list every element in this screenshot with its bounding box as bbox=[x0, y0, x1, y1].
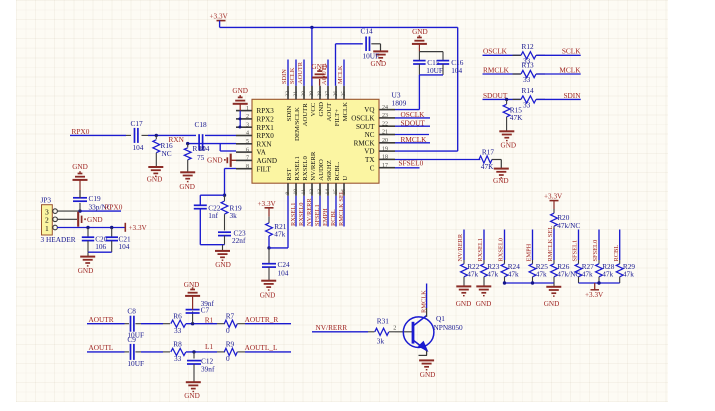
svg-text:FILT+: FILT+ bbox=[334, 109, 341, 127]
junction R16 bbox=[155, 134, 158, 137]
wire cap bottom rail bbox=[419, 74, 443, 76]
svg-text:R14: R14 bbox=[522, 86, 535, 95]
junction pin3 tie bbox=[238, 126, 241, 129]
svg-text:GND: GND bbox=[72, 163, 88, 171]
wire net RMCLK SEL pin16 bbox=[343, 196, 345, 227]
svg-text:29: 29 bbox=[309, 91, 315, 97]
transistor Q1 bbox=[403, 317, 434, 348]
ground C19 bbox=[73, 179, 88, 181]
ground C14 bbox=[373, 50, 388, 52]
ground R22 bbox=[463, 283, 465, 286]
svg-text:AOUTR_R: AOUTR_R bbox=[245, 315, 279, 324]
svg-text:106: 106 bbox=[95, 242, 106, 251]
wire RXN bbox=[188, 143, 236, 145]
svg-text:6: 6 bbox=[246, 147, 249, 153]
svg-text:10UF: 10UF bbox=[426, 66, 443, 75]
svg-text:GND: GND bbox=[260, 291, 276, 299]
ground JP3 pin2 bbox=[58, 218, 78, 220]
svg-text:3k: 3k bbox=[230, 211, 238, 220]
svg-text:AGND: AGND bbox=[257, 157, 278, 165]
svg-text:30: 30 bbox=[301, 91, 307, 97]
svg-text:0: 0 bbox=[226, 326, 230, 335]
wire R16 to gnd bbox=[155, 153, 157, 167]
svg-text:39nf: 39nf bbox=[201, 365, 215, 374]
junction FILT bbox=[223, 194, 226, 197]
svg-text:RXSEL0: RXSEL0 bbox=[498, 238, 505, 261]
JP3 pin circle bbox=[53, 209, 58, 214]
svg-text:RPX0: RPX0 bbox=[257, 132, 275, 140]
resistor R6 bbox=[171, 320, 186, 327]
wire C9 to R8 bbox=[135, 351, 141, 353]
resistor R12 bbox=[513, 54, 522, 56]
IC pin 19 VD stub bbox=[379, 150, 395, 152]
ground pins 1-3 bbox=[233, 103, 248, 105]
capacitor C17 bbox=[134, 128, 136, 143]
junction R15 bbox=[505, 98, 508, 101]
svg-text:75: 75 bbox=[197, 153, 205, 162]
ground C20 C21 bbox=[87, 252, 89, 256]
wire net NV/RERR pin12 bbox=[311, 196, 313, 227]
wire VCC pin29 to rail bbox=[311, 27, 313, 86]
IC pin 3 RPX1 stub bbox=[236, 126, 252, 128]
wire net RXSEL0 bbox=[504, 230, 506, 261]
power +3.3V R20 bbox=[550, 200, 559, 202]
svg-text:1: 1 bbox=[45, 224, 49, 233]
svg-text:RXN: RXN bbox=[169, 135, 185, 144]
wire NV/RERR bbox=[312, 331, 368, 333]
svg-text:RMCLK: RMCLK bbox=[483, 65, 510, 74]
svg-text:+3.3V: +3.3V bbox=[210, 12, 229, 20]
svg-text:RCBL.: RCBL. bbox=[334, 161, 341, 180]
svg-text:R13: R13 bbox=[522, 61, 535, 70]
wire net AOUTR pin30 bbox=[303, 60, 305, 86]
wire R17 to gnd bbox=[492, 159, 502, 161]
capacitor C22 bbox=[199, 195, 201, 205]
svg-text:8: 8 bbox=[246, 164, 249, 170]
svg-text:47k: 47k bbox=[508, 270, 519, 279]
resistor R14 bbox=[513, 98, 522, 100]
svg-text:33: 33 bbox=[174, 354, 182, 363]
svg-text:VA: VA bbox=[257, 149, 267, 157]
svg-text:3k: 3k bbox=[377, 337, 385, 346]
svg-text:C19: C19 bbox=[89, 194, 102, 203]
svg-text:U: U bbox=[342, 176, 349, 181]
wire MCLK row right bbox=[537, 73, 581, 75]
IC pin 26 FILT+ stub bbox=[335, 86, 337, 100]
svg-text:47K: 47K bbox=[481, 162, 494, 171]
wire C18 to pin4 bbox=[205, 134, 236, 136]
resistor R19 bbox=[224, 195, 226, 201]
svg-text:RPX3: RPX3 bbox=[257, 107, 275, 115]
IC pin 23 OSCLK stub bbox=[379, 117, 395, 119]
svg-text:TX: TX bbox=[365, 156, 374, 164]
ground pin28 GND bbox=[319, 79, 321, 86]
JP3 pin circle bbox=[53, 225, 58, 230]
wire net RCBL bbox=[619, 230, 621, 261]
capacitor C8 bbox=[130, 316, 132, 332]
wire RST to R21 bbox=[269, 247, 288, 249]
wire OSCLK pin23 bbox=[395, 117, 430, 119]
resistor R16 bbox=[155, 135, 157, 139]
IC pin 31 DEM/SCLK stub bbox=[295, 86, 297, 100]
IC pin 32 SDIN stub bbox=[287, 86, 289, 100]
svg-text:NV/RERR: NV/RERR bbox=[310, 151, 317, 181]
svg-text:GND: GND bbox=[179, 183, 195, 191]
IC pin 30 AOUTR stub bbox=[303, 86, 305, 100]
svg-text:104: 104 bbox=[133, 143, 144, 152]
junction rail R28 bbox=[597, 281, 600, 284]
svg-text:R12: R12 bbox=[522, 42, 535, 51]
wire OSCLK row left bbox=[483, 54, 521, 56]
JP3 pin circle bbox=[53, 217, 58, 222]
resistor R15 bbox=[506, 99, 508, 104]
wire R6 to junction bbox=[186, 323, 217, 325]
wire RMCLK row left bbox=[483, 73, 521, 75]
svg-text:GND: GND bbox=[412, 28, 428, 36]
svg-text:17: 17 bbox=[382, 163, 388, 169]
svg-text:104: 104 bbox=[199, 144, 210, 153]
wire net RMCLK SEL bbox=[553, 229, 555, 261]
ground R26 rail bbox=[553, 283, 555, 286]
IC pin 22 SOUT stub bbox=[379, 125, 395, 127]
wire net SCLK pin31 bbox=[295, 60, 297, 86]
svg-text:47k: 47k bbox=[487, 270, 498, 279]
svg-text:96KHZ: 96KHZ bbox=[326, 160, 333, 180]
resistor R24 bbox=[504, 260, 506, 264]
svg-text:GND: GND bbox=[215, 261, 231, 269]
capacitor C16 bbox=[442, 52, 444, 61]
IC pin 11 RXSEL0 stub bbox=[303, 183, 305, 196]
svg-text:AOUTL: AOUTL bbox=[89, 343, 114, 352]
capacitor C24 bbox=[268, 248, 270, 264]
svg-text:SDIN: SDIN bbox=[563, 91, 581, 100]
wire net RXSEL0 pin11 bbox=[303, 196, 305, 227]
svg-text:0: 0 bbox=[226, 354, 230, 363]
svg-text:RPX0: RPX0 bbox=[105, 203, 123, 212]
svg-text:33: 33 bbox=[523, 100, 531, 109]
IC pin 24 VQ stub bbox=[379, 109, 395, 111]
IC pin 10 RXSEL1 stub bbox=[295, 183, 297, 196]
wire net NV/RERR bbox=[463, 230, 465, 261]
svg-text:31: 31 bbox=[293, 91, 299, 97]
svg-text:SFSEL0: SFSEL0 bbox=[592, 240, 599, 262]
svg-text:L1: L1 bbox=[205, 342, 213, 351]
resistor R21 bbox=[268, 217, 270, 223]
svg-text:RXSEL0: RXSEL0 bbox=[302, 156, 309, 181]
wire SFSEL0 pin17 bbox=[395, 167, 420, 169]
svg-text:NV/RERR: NV/RERR bbox=[457, 233, 464, 261]
svg-text:SDOUT: SDOUT bbox=[401, 118, 426, 127]
wire R18 to gnd bbox=[187, 160, 189, 172]
capacitor C19 bbox=[79, 203, 81, 211]
junction C12 bbox=[192, 350, 195, 353]
svg-text:25: 25 bbox=[341, 91, 347, 97]
resistor R20 bbox=[553, 209, 555, 213]
ground R23 bbox=[483, 283, 485, 286]
svg-text:28: 28 bbox=[317, 91, 323, 97]
svg-text:SDOUT: SDOUT bbox=[483, 91, 508, 100]
wire R8 to junction bbox=[186, 351, 217, 353]
junction C19 bbox=[78, 209, 81, 212]
wire R24-R26 bottom rail bbox=[505, 282, 555, 284]
svg-text:RCBL: RCBL bbox=[330, 209, 337, 226]
wire net RXSEL1 pin10 bbox=[295, 196, 297, 227]
wire FILT+ pin26 to C14 bbox=[335, 44, 337, 86]
IC pin 8 FILT stub bbox=[236, 168, 252, 170]
wire NC pin21 bbox=[395, 134, 429, 136]
svg-text:+3.3V: +3.3V bbox=[585, 291, 604, 299]
svg-text:DEM/SCLK: DEM/SCLK bbox=[294, 107, 301, 141]
svg-text:104: 104 bbox=[451, 66, 462, 75]
svg-text:47k: 47k bbox=[582, 270, 593, 279]
resistor R7 bbox=[224, 320, 237, 327]
capacitor C7 bbox=[192, 311, 194, 323]
IC pin 15 RCBL. stub bbox=[335, 183, 337, 196]
IC pin 20 RMCK stub bbox=[379, 142, 395, 144]
capacitor C12 bbox=[193, 352, 195, 359]
svg-text:GND: GND bbox=[184, 281, 200, 289]
IC pin 4 RPX0 stub bbox=[236, 135, 252, 137]
capacitor C23 bbox=[218, 231, 231, 233]
svg-text:104: 104 bbox=[278, 268, 289, 277]
resistor R22 bbox=[463, 260, 465, 264]
svg-text:RXSEL1: RXSEL1 bbox=[290, 203, 297, 226]
svg-text:RXSEL1: RXSEL1 bbox=[294, 156, 301, 181]
svg-text:1: 1 bbox=[246, 106, 249, 112]
wire net RCBL pin15 bbox=[335, 196, 337, 227]
wire AOUTL bbox=[87, 351, 125, 353]
svg-text:MCLK: MCLK bbox=[559, 65, 581, 74]
resistor R25 bbox=[532, 260, 534, 264]
resistor R26 bbox=[553, 260, 555, 264]
svg-text:GND: GND bbox=[318, 102, 325, 117]
IC pin 16 U stub bbox=[343, 183, 345, 196]
svg-text:AOUTR: AOUTR bbox=[297, 61, 304, 84]
svg-text:10: 10 bbox=[293, 189, 299, 195]
wire R31 to base bbox=[389, 331, 395, 333]
wire VQ pin24 riser bbox=[418, 75, 420, 110]
ground R16 bbox=[148, 166, 163, 168]
svg-text:R7: R7 bbox=[226, 311, 235, 320]
svg-text:+3.3V: +3.3V bbox=[258, 200, 277, 208]
wire net AOUTL pin27 bbox=[327, 60, 329, 86]
svg-text:GND: GND bbox=[544, 300, 560, 308]
svg-text:3 HEADER: 3 HEADER bbox=[41, 235, 76, 244]
IC pin 28 GND stub bbox=[319, 86, 321, 100]
wire to R7 bbox=[217, 323, 225, 325]
power +3.3V JP3 bbox=[124, 223, 126, 232]
wire net MCLK pin25 bbox=[343, 60, 345, 86]
svg-text:OSCLK: OSCLK bbox=[351, 115, 375, 123]
wire SCLK row right bbox=[537, 54, 581, 56]
svg-text:18: 18 bbox=[382, 155, 388, 161]
svg-text:1809: 1809 bbox=[392, 99, 407, 108]
svg-text:47k: 47k bbox=[623, 270, 634, 279]
svg-text:26: 26 bbox=[333, 91, 339, 97]
svg-text:AOUTR: AOUTR bbox=[89, 315, 114, 324]
wire emitter to gnd bbox=[426, 351, 428, 356]
svg-text:20: 20 bbox=[382, 138, 388, 144]
power +3.3V array bbox=[594, 283, 596, 290]
svg-text:SDIN: SDIN bbox=[286, 106, 293, 122]
junction rail R25 bbox=[531, 281, 534, 284]
IC pin 21 NC stub bbox=[379, 134, 395, 136]
wire SDOUT pin22 bbox=[395, 125, 430, 127]
svg-text:AUDIO: AUDIO bbox=[318, 159, 325, 181]
svg-text:32: 32 bbox=[285, 91, 291, 97]
svg-text:47k/NC: 47k/NC bbox=[557, 221, 580, 230]
svg-text:SCLK: SCLK bbox=[289, 67, 296, 84]
ground R18 bbox=[180, 171, 195, 173]
IC pin 27 AOUT stub bbox=[327, 86, 329, 100]
wire net SDIN pin32 bbox=[287, 60, 289, 86]
svg-text:GND: GND bbox=[184, 392, 200, 400]
svg-text:21: 21 bbox=[382, 130, 388, 136]
ground R17 bbox=[494, 168, 509, 170]
svg-text:Q1: Q1 bbox=[436, 314, 445, 323]
svg-text:GND: GND bbox=[78, 267, 94, 275]
IC pin 29 VCC stub bbox=[311, 86, 313, 100]
svg-text:GND: GND bbox=[456, 300, 472, 308]
svg-text:VD: VD bbox=[364, 148, 374, 156]
svg-text:1nf: 1nf bbox=[208, 211, 218, 220]
svg-text:GND: GND bbox=[147, 176, 163, 184]
svg-text:C14: C14 bbox=[361, 27, 374, 36]
svg-text:RCBL: RCBL bbox=[613, 245, 620, 262]
svg-text:GND: GND bbox=[420, 371, 436, 379]
svg-text:SFSEL1: SFSEL1 bbox=[572, 240, 579, 262]
resistor R27 bbox=[578, 260, 580, 264]
svg-text:47k: 47k bbox=[467, 270, 478, 279]
svg-text:GND: GND bbox=[476, 300, 492, 308]
capacitor C20 bbox=[87, 228, 89, 238]
svg-text:R1: R1 bbox=[205, 315, 214, 324]
wire net SFSEL1 bbox=[578, 230, 580, 261]
wire VA jog bbox=[219, 144, 221, 151]
svg-text:19: 19 bbox=[382, 146, 388, 152]
svg-text:AOUTL_L: AOUTL_L bbox=[245, 343, 278, 352]
svg-text:R31: R31 bbox=[377, 316, 390, 325]
IC pin 18 TX stub bbox=[379, 158, 395, 160]
wire collector RMCLK bbox=[426, 308, 428, 317]
IC pin 14 96KHZ stub bbox=[327, 183, 329, 196]
resistor R17 bbox=[479, 156, 492, 163]
svg-text:104: 104 bbox=[119, 242, 130, 251]
resistor R8 bbox=[171, 348, 186, 355]
svg-text:RMCLK SEL: RMCLK SEL bbox=[547, 226, 554, 262]
svg-text:SOUT: SOUT bbox=[356, 123, 375, 131]
svg-text:FILT: FILT bbox=[257, 165, 272, 173]
svg-text:EMPH: EMPH bbox=[526, 243, 533, 261]
IC pin 12 NV/RERR stub bbox=[311, 183, 313, 196]
svg-text:9: 9 bbox=[285, 192, 291, 195]
resistor R18 bbox=[187, 144, 189, 148]
svg-text:RPX1: RPX1 bbox=[257, 124, 275, 132]
svg-text:7: 7 bbox=[246, 156, 249, 162]
IC pin 13 AUDIO stub bbox=[319, 183, 321, 196]
svg-text:AOUT: AOUT bbox=[326, 103, 333, 122]
svg-text:47k: 47k bbox=[274, 230, 285, 239]
svg-text:C8: C8 bbox=[127, 307, 136, 316]
svg-text:VQ: VQ bbox=[364, 106, 374, 114]
svg-text:24: 24 bbox=[382, 105, 388, 111]
svg-text:2: 2 bbox=[246, 114, 249, 120]
wire C8 to R6 bbox=[135, 323, 141, 325]
junction rail R24 bbox=[503, 281, 506, 284]
svg-text:47k: 47k bbox=[602, 270, 613, 279]
wire rail drop to VD bbox=[457, 27, 459, 151]
junction R18 bbox=[186, 142, 189, 145]
svg-text:14: 14 bbox=[325, 189, 331, 195]
svg-text:R17: R17 bbox=[482, 147, 495, 156]
resistor R13 bbox=[513, 73, 522, 75]
IC pin 6 VA stub bbox=[236, 151, 252, 153]
IC pin 25 MCLK stub bbox=[343, 86, 345, 100]
svg-text:C17: C17 bbox=[131, 119, 144, 128]
junction R21-C24-RST bbox=[267, 246, 270, 249]
wire FILT pin8 down bbox=[225, 168, 237, 170]
wire AOUTR bbox=[87, 323, 125, 325]
svg-text:12: 12 bbox=[309, 189, 315, 195]
svg-text:RST: RST bbox=[286, 168, 293, 180]
svg-text:NPN8050: NPN8050 bbox=[434, 323, 464, 332]
svg-text:33: 33 bbox=[523, 75, 531, 84]
wire VD pin19 bbox=[395, 150, 458, 152]
svg-text:GND: GND bbox=[493, 177, 509, 185]
svg-text:GND: GND bbox=[501, 141, 517, 149]
svg-text:RMCK: RMCK bbox=[354, 139, 376, 147]
resistor R29 bbox=[619, 260, 621, 264]
IC pin 9 RST stub bbox=[287, 183, 289, 196]
wire FILT bottom node bbox=[200, 244, 224, 246]
svg-text:RMCLK SEL: RMCLK SEL bbox=[338, 190, 345, 226]
svg-text:RMCLK: RMCLK bbox=[421, 290, 428, 313]
wire net SFSEL1 pin13 bbox=[319, 196, 321, 227]
wire +3.3V rail bbox=[220, 26, 458, 28]
svg-text:MCLK: MCLK bbox=[337, 65, 344, 84]
IC pin 17 C stub bbox=[379, 167, 395, 169]
wire R27-R29 bottom rail bbox=[579, 282, 620, 284]
wire net EMPH pin14 bbox=[327, 196, 329, 227]
wire SDIN row right bbox=[537, 98, 581, 100]
svg-text:39nf: 39nf bbox=[201, 299, 215, 308]
svg-text:22nf: 22nf bbox=[232, 236, 246, 245]
svg-text:MCLK: MCLK bbox=[342, 102, 349, 121]
capacitor C21 bbox=[111, 228, 113, 238]
power +3.3V top bbox=[217, 20, 226, 22]
wire JP3 pin1 +3.3V bbox=[57, 227, 125, 229]
svg-text:R6: R6 bbox=[173, 311, 182, 320]
wire to R9 bbox=[217, 351, 225, 353]
wire C20 C21 bottom bbox=[88, 251, 112, 253]
svg-text:NV/RERR: NV/RERR bbox=[316, 323, 348, 332]
svg-text:NC: NC bbox=[365, 131, 375, 139]
svg-text:GND: GND bbox=[207, 157, 223, 165]
svg-text:13: 13 bbox=[317, 189, 323, 195]
wire RPX0 bbox=[70, 134, 126, 136]
svg-text:2: 2 bbox=[393, 324, 396, 331]
svg-text:10UF: 10UF bbox=[127, 359, 144, 368]
svg-text:RXSEL0: RXSEL0 bbox=[298, 203, 305, 226]
ground C7 bbox=[185, 295, 200, 297]
svg-text:NV/RERR: NV/RERR bbox=[306, 198, 313, 226]
capacitor C9 bbox=[130, 344, 132, 360]
junction VCC on rail bbox=[310, 26, 313, 29]
junction C21 bbox=[110, 226, 113, 229]
wire C17 to C18 bbox=[142, 134, 149, 136]
svg-text:OSCLK: OSCLK bbox=[483, 47, 508, 56]
wire JP3 pin3 RPX0 bbox=[57, 210, 80, 212]
